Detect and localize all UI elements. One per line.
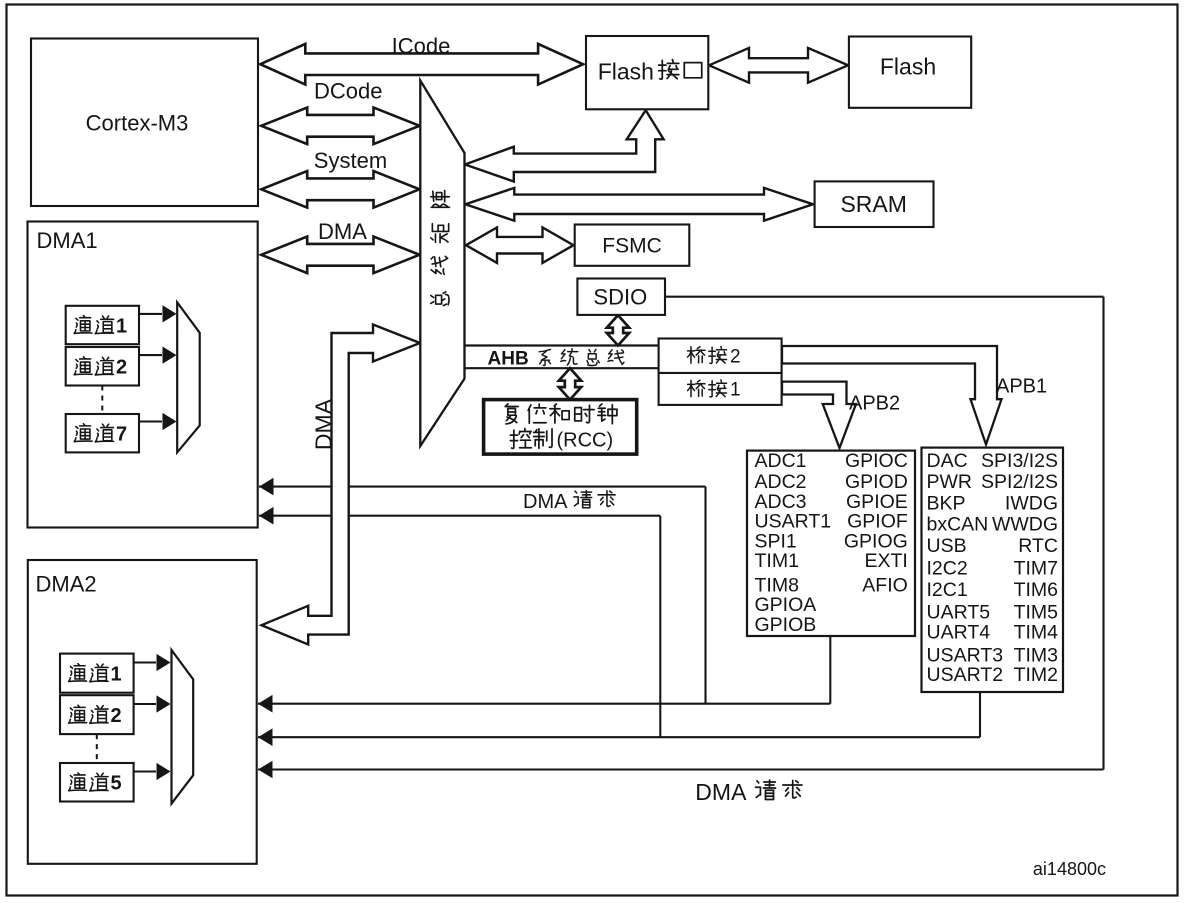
APB2 arrow bridge1 to APB2 peripherals (782, 382, 856, 448)
svg-text:DMA: DMA (318, 219, 367, 244)
bus matrix to FSMC arrow (466, 228, 574, 263)
svg-text:APB1: APB1 (996, 376, 1047, 398)
wire right column down (1102, 297, 1104, 770)
svg-text:TIM1: TIM1 (755, 550, 799, 572)
elbow arrow bus matrix to Flash interface (465, 110, 664, 181)
DMA1 arbiter trapezoid (177, 302, 200, 452)
svg-text:ADC1: ADC1 (755, 450, 807, 472)
svg-text:TIM7: TIM7 (1014, 558, 1058, 580)
svg-text:1: 1 (111, 663, 122, 685)
wire APB1 box down (979, 692, 981, 737)
svg-text:System: System (314, 148, 387, 173)
svg-text:bxCAN: bxCAN (927, 514, 989, 536)
arrowhead request D into DMA2 (258, 728, 273, 746)
svg-text:TIM4: TIM4 (1014, 622, 1059, 644)
svg-text:5: 5 (111, 773, 122, 795)
wire channel to arbiter (134, 770, 156, 772)
svg-text:USART2: USART2 (927, 664, 1004, 686)
DMA bus arrow (261, 237, 419, 274)
svg-text:I2C1: I2C1 (927, 579, 968, 601)
svg-text:FSMC: FSMC (602, 235, 662, 258)
wire APB2 box down (829, 636, 831, 704)
DMA2 channel 1 box (60, 654, 134, 693)
svg-text:TIM8: TIM8 (755, 574, 799, 596)
svg-text:PWR: PWR (927, 471, 973, 493)
bus matrix vertical label (431, 292, 449, 306)
svg-text:APB2: APB2 (849, 393, 900, 415)
svg-text:GPIOE: GPIOE (846, 491, 908, 513)
wire channel to arbiter (139, 420, 162, 422)
svg-text:WWDG: WWDG (992, 514, 1058, 536)
svg-text:EXTI: EXTI (864, 550, 907, 572)
arrowhead channel into arbiter (163, 413, 177, 430)
svg-text:ICode: ICode (392, 34, 451, 59)
svg-text:RTC: RTC (1018, 535, 1058, 557)
svg-text:SPI2/I2S: SPI2/I2S (981, 471, 1058, 493)
APB1 arrow bridge2 to APB1 peripherals (782, 346, 1002, 445)
bus matrix to SRAM arrow (465, 188, 813, 221)
DMA2 box (28, 560, 257, 864)
svg-text:TIM6: TIM6 (1014, 579, 1058, 601)
DCode bus arrow (261, 108, 419, 145)
svg-text:DMA2: DMA2 (36, 572, 97, 597)
DMA2 arbiter trapezoid (172, 650, 194, 804)
svg-text:SDIO: SDIO (593, 285, 647, 310)
bus matrix trapezoid (420, 81, 464, 447)
SDIO box (577, 279, 665, 315)
svg-text:Flash: Flash (880, 53, 936, 79)
AHB to RCC double arrow (559, 368, 581, 399)
DMA1 channel 2 box (66, 347, 139, 386)
SRAM box (815, 181, 934, 227)
svg-text:TIM5: TIM5 (1014, 602, 1059, 624)
DMA1 channel 1 box (66, 306, 139, 344)
FSMC box (575, 225, 690, 266)
wire channel to arbiter (134, 661, 156, 663)
DMA2 channel 2 box (60, 695, 134, 734)
DMA1 box (28, 222, 258, 528)
svg-text:GPIOC: GPIOC (845, 450, 908, 472)
wire channel to arbiter (139, 313, 162, 315)
arrowhead channel into arbiter (163, 347, 177, 364)
AHB bus line top (465, 344, 659, 346)
arrowhead channel into arbiter (157, 695, 171, 712)
arrowhead channel into arbiter (157, 763, 171, 780)
arrowhead channel into arbiter (163, 305, 177, 322)
svg-text:Flash: Flash (598, 59, 654, 85)
wire SDIO to right column (665, 296, 1104, 298)
RCC reset and clock control box (484, 400, 637, 455)
APB1 peripherals box (922, 448, 1064, 692)
wire channel to arbiter (134, 703, 156, 705)
wire DMA1 request line A (259, 486, 706, 488)
wire request A vertical (704, 487, 706, 704)
svg-text:USB: USB (927, 535, 967, 557)
svg-text:2: 2 (730, 346, 741, 367)
svg-text:SPI1: SPI1 (755, 530, 797, 552)
System bus arrow (261, 171, 419, 208)
svg-text:UART4: UART4 (927, 622, 991, 644)
svg-text:1: 1 (730, 380, 741, 401)
dashed line DMA2 channels (96, 734, 98, 763)
wire request B vertical (659, 516, 661, 738)
svg-text:DMA: DMA (311, 398, 337, 450)
svg-text:AFIO: AFIO (862, 574, 908, 596)
arrowhead request B into DMA1 (259, 507, 274, 525)
svg-text:DMA1: DMA1 (37, 228, 98, 253)
svg-text:GPIOA: GPIOA (755, 594, 817, 616)
svg-text:(RCC): (RCC) (557, 430, 614, 452)
svg-text:GPIOF: GPIOF (847, 511, 908, 533)
Flash interface box (586, 36, 708, 109)
svg-text:ai14800c: ai14800c (1033, 859, 1106, 879)
arrowhead channel into arbiter (157, 654, 171, 671)
SDIO to AHB double arrow (607, 315, 629, 345)
svg-text:SRAM: SRAM (840, 191, 906, 217)
svg-text:AHB: AHB (488, 349, 529, 370)
svg-text:ADC2: ADC2 (755, 471, 807, 493)
svg-text:TIM3: TIM3 (1014, 644, 1058, 666)
svg-text:1: 1 (116, 315, 127, 337)
svg-text:GPIOD: GPIOD (845, 471, 908, 493)
wire DMA1 request line B (259, 515, 660, 517)
bridge 1 box (659, 373, 782, 405)
svg-text:ADC3: ADC3 (755, 491, 807, 513)
svg-text:USART1: USART1 (755, 511, 832, 533)
elbow arrow DMA2 to bus matrix (262, 325, 421, 645)
bridge 2 box (659, 339, 782, 374)
svg-text:USART3: USART3 (927, 644, 1004, 666)
Flash interface to Flash arrow (709, 48, 848, 83)
svg-text:2: 2 (116, 357, 127, 379)
DMA1 channel 7 box (66, 414, 139, 452)
svg-text:GPIOG: GPIOG (844, 530, 908, 552)
svg-text:DMA: DMA (523, 491, 568, 513)
svg-text:GPIOB: GPIOB (755, 614, 817, 636)
arrowhead request C into DMA2 (258, 695, 273, 713)
wire DMA2 request line C (258, 703, 830, 705)
svg-text:SPI3/I2S: SPI3/I2S (981, 450, 1058, 472)
ICode bus arrow (260, 44, 583, 85)
wire channel to arbiter (139, 354, 162, 356)
svg-text:BKP: BKP (927, 492, 966, 514)
wire DMA2 request line D (258, 736, 980, 738)
svg-text:7: 7 (116, 424, 127, 446)
wire DMA2 request line E (258, 768, 1104, 770)
svg-text:IWDG: IWDG (1005, 492, 1058, 514)
AHB bus line bottom (465, 367, 659, 369)
arrowhead request A into DMA1 (259, 478, 274, 496)
Flash box (849, 37, 971, 108)
arrowhead request E into DMA2 (258, 761, 273, 779)
dashed line DMA1 channels (101, 386, 103, 415)
APB2 peripherals box (747, 451, 915, 636)
svg-text:DCode: DCode (314, 78, 382, 103)
svg-text:I2C2: I2C2 (927, 558, 968, 580)
svg-text:DAC: DAC (927, 450, 968, 472)
svg-text:DMA: DMA (695, 779, 747, 805)
DMA2 channel 5 box (60, 763, 134, 802)
svg-text:UART5: UART5 (927, 602, 991, 624)
svg-text:2: 2 (111, 705, 122, 727)
svg-text:Cortex-M3: Cortex-M3 (86, 111, 189, 136)
svg-text:TIM2: TIM2 (1014, 664, 1058, 686)
Cortex-M3 box (31, 39, 258, 207)
